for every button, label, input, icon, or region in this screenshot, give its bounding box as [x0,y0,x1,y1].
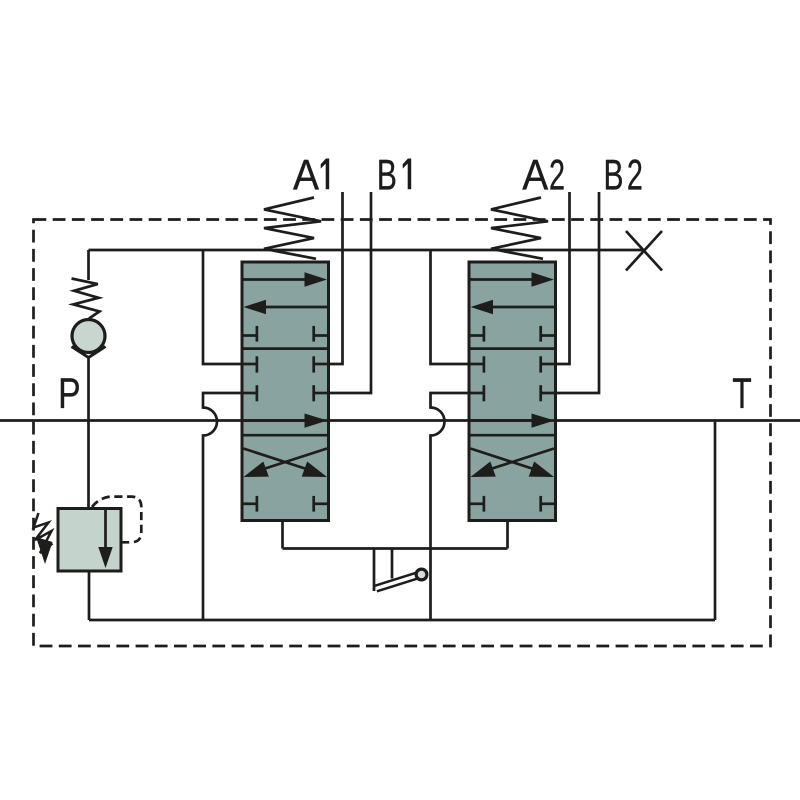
svg-text:P: P [58,370,81,418]
svg-text:T: T [732,370,752,418]
svg-text:A: A [522,152,548,200]
svg-text:B: B [604,152,624,200]
svg-text:A: A [293,152,319,200]
svg-text:2: 2 [549,152,565,200]
svg-text:2: 2 [627,152,643,200]
svg-text:B: B [377,152,397,200]
